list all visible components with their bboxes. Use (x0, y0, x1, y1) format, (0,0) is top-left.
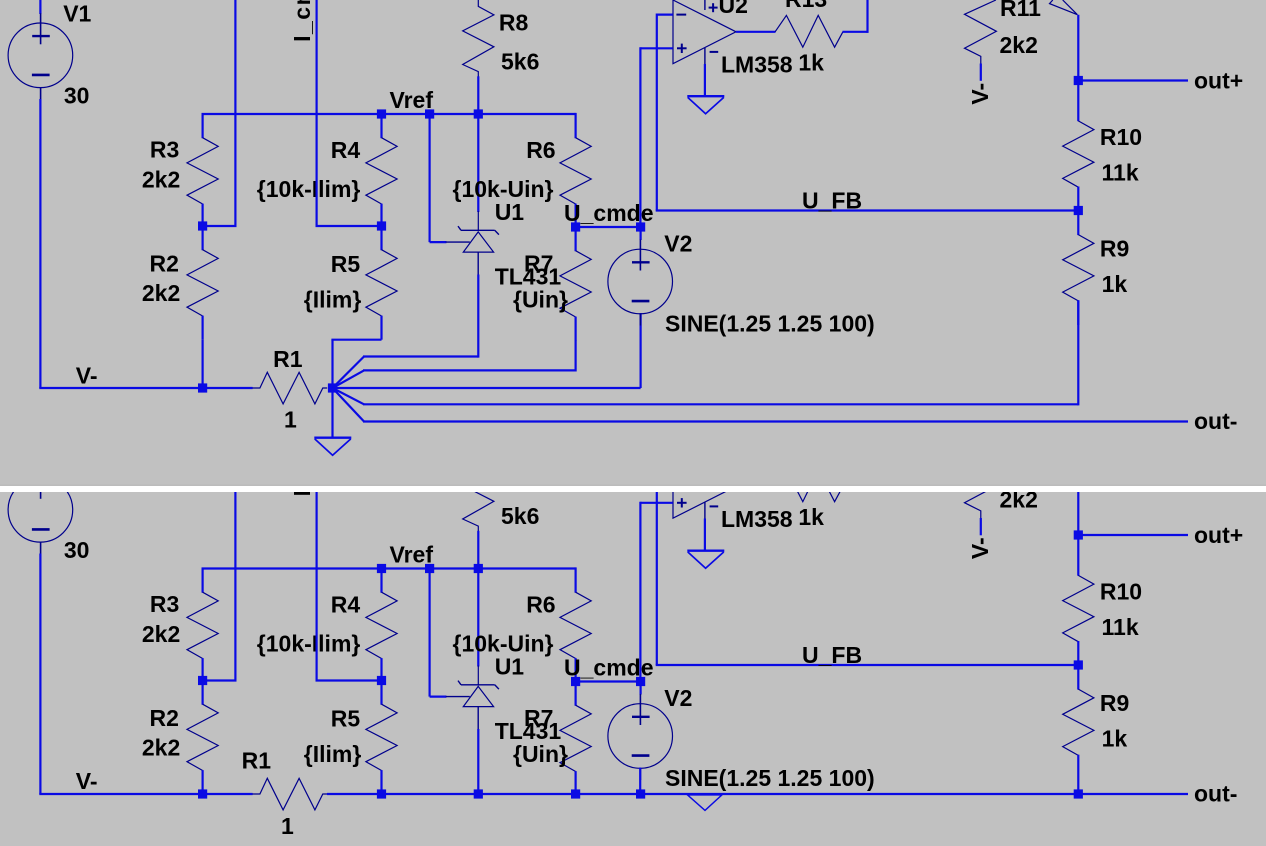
junction out+ (bottom) (1074, 530, 1083, 539)
wire Vref to TL431 cathode (477, 113, 479, 212)
ground below star node (314, 438, 351, 456)
svg-text:R10: R10 (1100, 124, 1142, 150)
svg-text:LM358: LM358 (721, 52, 793, 78)
voltage source V1 (bottom pane) (8, 468, 73, 554)
svg-text:SINE(1.25 1.25 100): SINE(1.25 1.25 100) (665, 765, 875, 791)
svg-text:U1: U1 (495, 654, 525, 680)
svg-text:30: 30 (64, 537, 90, 563)
resistor R9 (bottom) (1063, 665, 1094, 794)
resistor R6 (bottom) (560, 569, 591, 683)
junction rail/V2 (bottom) (636, 789, 645, 798)
junction R3/R2 (198, 221, 207, 230)
wire Vref rail corner into R6 (574, 113, 576, 114)
junction Vref/TL431 (bottom) (425, 564, 434, 573)
wire star node down to ground (331, 388, 333, 438)
junction rail/TL431 (bottom) (474, 789, 483, 798)
junction Vref/R4 (377, 109, 386, 118)
svg-text:V-: V- (76, 768, 98, 794)
junction Vref/R8 (474, 109, 483, 118)
svg-text:{Ilim}: {Ilim} (304, 287, 362, 313)
resistor R3 (bottom) (187, 569, 218, 683)
svg-text:I_cmde: I_cmde (289, 0, 315, 42)
resistor R7 (bottom) (560, 682, 591, 796)
svg-text:U1: U1 (495, 199, 525, 225)
TL431 U1 symbol (bottom) (446, 666, 499, 730)
svg-text:{Uin}: {Uin} (513, 287, 568, 313)
resistor R7 (560, 227, 591, 341)
svg-text:U_FB: U_FB (802, 642, 862, 668)
svg-text:R9: R9 (1100, 690, 1129, 716)
wire star to out- (diagonal) (333, 388, 365, 422)
svg-text:R5: R5 (331, 706, 361, 732)
junction rail/R2 (bottom) (198, 789, 207, 798)
svg-text:2k2: 2k2 (142, 734, 180, 760)
resistor R11 (cut at top) (965, 0, 997, 81)
ground below op-amp (687, 96, 724, 114)
junction U_cmde/R6/R7 (bottom) (571, 677, 580, 686)
svg-text:R3: R3 (150, 137, 179, 163)
wire star to R7 bottom (diagonal) (333, 370, 365, 388)
svg-text:V-: V- (76, 362, 98, 388)
wire Vref corner R6 (bottom) (574, 567, 576, 568)
wire op-amp +in to U_cmde (bottom) (640, 502, 672, 504)
svg-text:11k: 11k (1102, 160, 1139, 186)
resistor R13 (bottom, clipped tips) (775, 470, 843, 502)
resistor R4 (bottom) (366, 569, 397, 683)
wire V1 bottom to V- rail (39, 99, 41, 388)
svg-text:R10: R10 (1100, 579, 1142, 605)
svg-text:R3: R3 (150, 591, 179, 617)
ground below op-amp (bottom) (687, 551, 724, 569)
svg-text:R6: R6 (526, 137, 555, 163)
svg-text:1: 1 (281, 813, 294, 839)
op-amp U2 LM358 (673, 453, 736, 551)
svg-text:out+: out+ (1194, 522, 1243, 548)
svg-text:{10k-Uin}: {10k-Uin} (453, 176, 554, 202)
resistor R5 (bottom) (366, 681, 397, 795)
wire Vref to TL431 ref (429, 113, 431, 242)
svg-text:11k: 11k (1102, 614, 1139, 640)
svg-text:1: 1 (284, 407, 297, 433)
svg-text:30: 30 (64, 82, 90, 108)
junction U_cmde/R6/R7 (571, 222, 580, 231)
svg-text:R8: R8 (499, 10, 529, 36)
svg-text:U_FB: U_FB (802, 188, 862, 214)
svg-text:Vref: Vref (390, 542, 434, 568)
junction U_FB/R10/R9 (bottom) (1074, 660, 1083, 669)
svg-text:2k2: 2k2 (1000, 32, 1038, 58)
svg-text:R1: R1 (242, 748, 272, 774)
wire second top column (316, 0, 318, 226)
svg-text:R6: R6 (526, 592, 555, 618)
svg-text:{10k-Ilim}: {10k-Ilim} (257, 176, 361, 202)
resistor R4 (366, 114, 397, 228)
junction V- / R2 (198, 383, 207, 392)
svg-text:V1: V1 (63, 1, 91, 27)
wire I_cmde column (bottom) (234, 455, 236, 681)
wire Vref rail (bottom) (202, 568, 204, 570)
wire op-amp output to R13 (736, 31, 776, 33)
wire V1 bottom to rail (bottom) (39, 554, 41, 795)
junction star node at R1 right (328, 383, 337, 392)
junction Vref/R8 (bottom) (474, 564, 483, 573)
junction rail/R7 (bottom) (571, 789, 580, 798)
wire star to V2 bottom (333, 387, 641, 389)
ground on rail (bottom) (688, 795, 722, 811)
wire op-amp -in down to U_FB rail (bottom) (656, 468, 658, 665)
wire R5 bottom to rail (bottom) (380, 793, 382, 795)
svg-text:{Ilim}: {Ilim} (304, 741, 362, 767)
svg-text:{10k-Uin}: {10k-Uin} (453, 631, 554, 657)
junction rail/R9 (bottom) (1074, 789, 1083, 798)
wire star to R5 bottom (331, 340, 333, 388)
resistor R12 fragment at top edge (1050, 0, 1079, 81)
svg-text:{10k-Ilim}: {10k-Ilim} (257, 631, 361, 657)
svg-text:U2: U2 (719, 0, 748, 18)
wire second column (bottom) (316, 455, 318, 681)
svg-text:1k: 1k (1102, 271, 1128, 297)
resistor R2 (bottom) (187, 681, 218, 795)
resistor R8 (cut at top) (463, 0, 494, 114)
wire U_cmde to V2 top (bottom) (639, 682, 641, 695)
resistor R11 (bottom, clipped) (965, 455, 997, 536)
svg-text:5k6: 5k6 (501, 49, 539, 75)
wire Vref to TL431 cathode (bottom) (477, 568, 479, 667)
svg-text:1k: 1k (1102, 725, 1128, 751)
junction out+ (1074, 76, 1083, 85)
svg-text:R2: R2 (150, 705, 179, 731)
wire U_cmde (576, 226, 641, 228)
junction R4/R5 (bottom) (377, 676, 386, 685)
wire U_cmde to V2 top (639, 227, 641, 240)
wire I_cmde column (234, 0, 236, 226)
svg-text:R11: R11 (1000, 0, 1041, 21)
svg-text:R2: R2 (150, 251, 179, 277)
svg-text:R9: R9 (1100, 235, 1129, 261)
junction U_cmde/V2 (bottom) (636, 677, 645, 686)
wire star to R9 bottom (diagonal) (333, 388, 365, 404)
wire op-amp +in to U_cmde (640, 47, 672, 49)
svg-text:Vref: Vref (390, 87, 434, 113)
junction U_FB/R10/R9 (1074, 206, 1083, 215)
voltage source V2 (608, 240, 673, 326)
svg-text:R13: R13 (785, 0, 827, 12)
resistor R8 (bottom, clipped) (463, 455, 494, 569)
svg-text:R4: R4 (331, 592, 361, 618)
junction R3/R2 (bottom) (198, 676, 207, 685)
voltage source V1 (8, 13, 73, 99)
svg-text:out-: out- (1194, 781, 1237, 807)
svg-text:2k2: 2k2 (142, 621, 180, 647)
svg-text:out+: out+ (1194, 68, 1243, 94)
TL431 U1 symbol (446, 211, 499, 275)
wire R12 column (bottom, clipped) (1077, 469, 1079, 535)
wire R7 bottom to rail (bottom) (574, 793, 576, 796)
svg-text:R7: R7 (524, 705, 553, 731)
svg-text:2k2: 2k2 (142, 280, 180, 306)
wire op-amp -in down to U_FB rail (657, 14, 673, 16)
junction Vref/R4 (bottom) (377, 564, 386, 573)
wire U_cmde (bottom) (576, 680, 641, 682)
junction R4/R5 (377, 221, 386, 230)
wire R2 bottom (202, 340, 204, 388)
wire V1 top (39, 0, 41, 14)
svg-text:2k2: 2k2 (142, 166, 180, 192)
svg-text:V2: V2 (664, 230, 692, 256)
junction Vref/TL431 ref (425, 109, 434, 118)
svg-text:V-: V- (967, 537, 993, 559)
svg-text:{Uin}: {Uin} (513, 741, 568, 767)
resistor R13 (775, 15, 843, 47)
wire R13 right up to top edge (843, 31, 868, 33)
wire Vref rail (202, 113, 204, 115)
resistor R5 (366, 226, 397, 340)
wire TL431 anode to rail (bottom) (477, 729, 479, 794)
resistor R10 (1063, 81, 1094, 212)
svg-text:5k6: 5k6 (501, 503, 539, 529)
wire out+ (1078, 79, 1188, 81)
junction rail/R5 (bottom) (377, 789, 386, 798)
wire rail middle (bottom) (327, 793, 1188, 795)
wire star to TL431 anode (diagonal) (333, 357, 365, 389)
resistor R6 (560, 114, 591, 228)
wire V2 bottom to rail (bottom) (639, 768, 641, 795)
resistor R1 (bottom, in rail) (252, 778, 327, 810)
svg-text:out-: out- (1194, 408, 1237, 434)
resistor R2 (187, 226, 218, 340)
svg-text:R1: R1 (273, 346, 303, 372)
wire out+ (bottom) (1078, 534, 1188, 536)
voltage source V2 (bottom pane) (608, 694, 673, 780)
svg-text:SINE(1.25 1.25 100): SINE(1.25 1.25 100) (665, 311, 875, 337)
pane separator (0, 485, 1266, 486)
resistor R3 (187, 114, 218, 228)
svg-text:R7: R7 (524, 251, 553, 277)
junction U_cmde/V2 (636, 222, 645, 231)
svg-text:V-: V- (967, 83, 993, 105)
wire Vref to TL431 ref (bottom) (429, 568, 431, 697)
resistor R10 (bottom) (1063, 535, 1094, 666)
wire R2 bottom (bottom) (202, 793, 204, 795)
svg-text:V2: V2 (664, 685, 692, 711)
resistor R1 (252, 372, 327, 404)
svg-text:1k: 1k (798, 50, 824, 76)
svg-text:LM358: LM358 (721, 506, 793, 532)
op-amp U2 LM358 (673, 0, 736, 96)
svg-text:1k: 1k (798, 504, 824, 530)
svg-text:R5: R5 (331, 251, 361, 277)
svg-text:R4: R4 (331, 137, 361, 163)
resistor R9 (1063, 211, 1094, 326)
